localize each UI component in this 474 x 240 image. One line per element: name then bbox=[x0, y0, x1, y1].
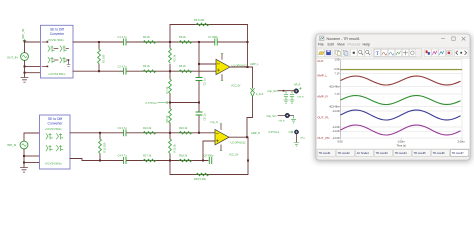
window drop shadow bbox=[315, 34, 472, 162]
wire VG1 bottom bbox=[24, 60, 26, 77]
wire feedback R9 path bbox=[170, 25, 248, 68]
svg-text:0.97Vrms: 0.97Vrms bbox=[269, 131, 280, 134]
x axis labels bbox=[338, 139, 465, 147]
tab bar bbox=[317, 148, 470, 157]
capacitor C1 4.7u bbox=[118, 35, 128, 45]
wire node to box SE2 in2 bbox=[24, 155, 39, 157]
svg-text:R6 2k: R6 2k bbox=[179, 64, 186, 68]
svg-text:VCC_5V: VCC_5V bbox=[231, 85, 241, 88]
svg-text:SE to Diff: SE to Diff bbox=[48, 117, 62, 121]
VCVS E1 inside SE1 bbox=[48, 46, 54, 52]
wire to U2 non-inverting input bbox=[203, 141, 215, 161]
wire cap chain upper bbox=[198, 64, 200, 103]
resistor R9 5.36k feedback bbox=[194, 18, 209, 26]
resistor R7 2k vertical bbox=[165, 71, 171, 102]
svg-text:INP_IN: INP_IN bbox=[21, 29, 25, 39]
toolbar icon save bbox=[325, 49, 332, 57]
axis ticks bbox=[339, 60, 462, 140]
capacitor C4 4.7u bbox=[118, 154, 128, 164]
resistor R17 2k bbox=[143, 154, 156, 162]
voltage source VG2 (INP_R) bbox=[7, 141, 28, 149]
wire rail2 bbox=[73, 70, 216, 72]
svg-text:Help: Help bbox=[363, 43, 370, 47]
toolbar icon pointer bbox=[351, 49, 358, 57]
voltage source VG1 (INP_L) bbox=[7, 29, 28, 61]
junction dots channel 2 bbox=[99, 132, 249, 162]
VCVS E7 inside SE2 bbox=[46, 145, 52, 151]
ground below VM_L bbox=[294, 143, 299, 147]
svg-text:VM_L: VM_L bbox=[300, 137, 306, 139]
svg-text:R1 180: R1 180 bbox=[102, 54, 106, 63]
trace AMP_L sine bbox=[341, 76, 461, 85]
svg-text:0.00: 0.00 bbox=[338, 139, 344, 143]
resistor R4 2k bbox=[143, 64, 156, 73]
macro block SE to Diff Converter 2 bbox=[40, 115, 71, 169]
svg-text:+VCVS4 500m: +VCVS4 500m bbox=[45, 162, 62, 166]
title bar icon bbox=[320, 36, 325, 41]
resistor R13 180 vertical bbox=[99, 133, 107, 161]
svg-text:Z_AuX: Z_AuX bbox=[256, 93, 264, 96]
resistor R3 2k bbox=[143, 35, 156, 43]
wire VG1 top to box SE1 bbox=[25, 42, 41, 53]
wire node to box SE1 in2 bbox=[25, 65, 41, 67]
capacitor C8 390p feedback bbox=[204, 154, 214, 164]
svg-text:C2 4.7u: C2 4.7u bbox=[118, 64, 128, 68]
svg-text:TR result1: TR result1 bbox=[319, 151, 332, 155]
svg-text:-14.00: -14.00 bbox=[332, 110, 340, 113]
voltmeter VM_L bbox=[294, 130, 306, 139]
svg-text:OUT_IN: OUT_IN bbox=[7, 55, 18, 59]
wire rail4 bbox=[70, 159, 208, 161]
svg-text:0.00: 0.00 bbox=[334, 68, 339, 71]
op-amp U1 OPA1612 bbox=[216, 54, 247, 88]
wire to U1 inverting input bbox=[199, 42, 216, 64]
svg-text:VCC_5V: VCC_5V bbox=[229, 154, 239, 157]
svg-text:-823.48m: -823.48m bbox=[329, 85, 340, 88]
svg-text:7.17: 7.17 bbox=[334, 73, 339, 76]
resistor R2 2k vertical between rails bbox=[169, 42, 177, 71]
trace OUT_PR sine bbox=[341, 125, 461, 135]
svg-text:R14 2k: R14 2k bbox=[143, 126, 152, 130]
capacitor C7 390p feedback bbox=[208, 35, 218, 45]
svg-text:Converter: Converter bbox=[48, 122, 64, 126]
svg-text:1.00m: 1.00m bbox=[398, 139, 405, 143]
svg-text:INP_R: INP_R bbox=[7, 143, 17, 147]
wire feedback R19 path bbox=[170, 137, 248, 174]
capacitor C2 4.7u bbox=[118, 64, 128, 74]
wire rail3 bbox=[70, 132, 215, 134]
voltmeter VM_B bbox=[279, 113, 290, 122]
svg-text:0.77Vrms: 0.77Vrms bbox=[145, 101, 157, 105]
wire VM_L to ground bbox=[296, 134, 298, 142]
svg-text:Cap_Sim: Cap_Sim bbox=[267, 115, 277, 118]
svg-text:R19 5.36k: R19 5.36k bbox=[194, 177, 207, 181]
svg-text:R5 2k: R5 2k bbox=[179, 35, 186, 39]
toolbar icon copy2 bbox=[342, 49, 349, 57]
VCVS E4 inside SE1 bbox=[60, 57, 66, 63]
svg-text:R2 2k: R2 2k bbox=[173, 54, 177, 61]
svg-text:-14.00: -14.00 bbox=[332, 130, 340, 133]
window frame bbox=[316, 34, 470, 160]
svg-text:R18 2k: R18 2k bbox=[179, 154, 188, 158]
resistor R8 2k vertical bbox=[165, 103, 171, 133]
node dots VG2 bbox=[23, 155, 25, 164]
toolbar icon open bbox=[318, 49, 325, 57]
resistor R6 2k bbox=[179, 64, 192, 73]
internal wires SE1 bbox=[42, 42, 69, 66]
svg-text:AMP_R: AMP_R bbox=[251, 131, 260, 135]
svg-text:TR result6: TR result6 bbox=[433, 151, 446, 155]
svg-text:Process: Process bbox=[348, 43, 361, 47]
svg-text:TR result5: TR result5 bbox=[414, 151, 427, 155]
toolbar group trace tools bbox=[374, 49, 422, 57]
node dots VG1 bbox=[24, 40, 26, 73]
wire VG2 bottom bbox=[23, 149, 25, 167]
resistor R14 2k bbox=[143, 126, 156, 134]
svg-text:1.00: 1.00 bbox=[334, 59, 339, 62]
svg-text:C7 390p: C7 390p bbox=[208, 35, 218, 39]
svg-text:-823.48m: -823.48m bbox=[329, 106, 340, 109]
svg-text:AMP_L: AMP_L bbox=[250, 62, 259, 66]
svg-text:R4 2k: R4 2k bbox=[143, 64, 150, 68]
menu bar bbox=[318, 43, 370, 47]
svg-text:Time (s): Time (s) bbox=[397, 143, 407, 147]
wire meter cluster mid bbox=[278, 115, 294, 117]
svg-text:Imp_In: Imp_In bbox=[211, 121, 219, 124]
ground below VG2 bbox=[21, 168, 28, 173]
annotation 0.97Vrms bbox=[269, 131, 294, 134]
toolbar bbox=[317, 47, 470, 58]
VCVS E6 inside SE2 bbox=[57, 134, 63, 140]
plot panel bbox=[317, 59, 470, 149]
svg-text:TR result4: TR result4 bbox=[395, 151, 408, 155]
svg-text:C8 390p: C8 390p bbox=[204, 154, 214, 158]
svg-text:AC Scale1: AC Scale1 bbox=[357, 151, 370, 155]
svg-text:T: T bbox=[376, 52, 379, 57]
resistor R19 5.36k feedback bbox=[194, 173, 209, 181]
resistor R1 180 vertical bbox=[98, 42, 106, 71]
svg-text:VM_B: VM_B bbox=[279, 121, 285, 123]
wire node to box SE2 in3 bbox=[24, 162, 39, 164]
signal name labels bbox=[317, 59, 330, 140]
grid frame lines bbox=[340, 60, 462, 138]
wire VG2 top to box SE2 bbox=[24, 133, 39, 141]
svg-text:Noname - TR result1: Noname - TR result1 bbox=[327, 37, 360, 41]
svg-text:R3 2k: R3 2k bbox=[143, 35, 150, 39]
VCVS E5 inside SE2 bbox=[46, 134, 52, 140]
junction dots channel 1 bbox=[98, 41, 249, 104]
VCVS E8 inside SE2 bbox=[57, 145, 63, 151]
svg-text:Edit: Edit bbox=[328, 43, 334, 47]
junction dots upper cluster bbox=[283, 90, 296, 92]
svg-text:Cap_Sim: Cap_Sim bbox=[268, 90, 278, 93]
trace AMP_R sine bbox=[341, 96, 461, 105]
VCVS E2 inside SE1 bbox=[60, 46, 66, 52]
svg-text:HP_R: HP_R bbox=[294, 84, 301, 87]
wire node to box SE1 in3 bbox=[25, 72, 41, 74]
svg-text:File: File bbox=[318, 43, 324, 47]
svg-text:OUT_PL: OUT_PL bbox=[317, 116, 329, 120]
toolbar icon copy1 bbox=[335, 49, 342, 57]
wire mid node bbox=[170, 102, 199, 104]
caption buttons bbox=[441, 37, 465, 41]
capacitor C6 100n bbox=[196, 112, 206, 121]
svg-text:AMP_R: AMP_R bbox=[317, 95, 328, 99]
resistor R5 2k bbox=[179, 35, 192, 43]
op-amp U2 OPA1612 bbox=[215, 124, 246, 157]
svg-text:R15 2k: R15 2k bbox=[173, 144, 177, 153]
toolbar icon zoom-in bbox=[358, 49, 365, 57]
svg-text:C5 1u: C5 1u bbox=[202, 78, 206, 85]
resistor R16 2k bbox=[179, 126, 192, 134]
annotation 0.77Vrms bbox=[145, 101, 168, 105]
svg-text:C4 4.7u: C4 4.7u bbox=[118, 154, 128, 158]
svg-text:+VCVS2 500m: +VCVS2 500m bbox=[48, 72, 65, 76]
toolbar group nav arrows bbox=[455, 49, 469, 57]
svg-text:OUT_PR: OUT_PR bbox=[317, 136, 330, 140]
svg-text:R16 2k: R16 2k bbox=[179, 126, 188, 130]
voltmeter VM_R bbox=[294, 87, 304, 98]
wire U2 output bbox=[229, 136, 248, 138]
wire rail1 bbox=[73, 41, 248, 43]
svg-text:R13 180: R13 180 bbox=[103, 142, 107, 152]
svg-text:SE to Diff: SE to Diff bbox=[50, 27, 64, 31]
svg-text:View: View bbox=[337, 43, 345, 47]
macro block SE to Diff Converter 1 bbox=[41, 25, 74, 78]
svg-text:R7 2k: R7 2k bbox=[165, 86, 169, 93]
svg-text:VM_R: VM_R bbox=[298, 97, 304, 99]
svg-text:AMP_L: AMP_L bbox=[317, 74, 327, 78]
y axis bbox=[339, 60, 341, 138]
axis value labels bbox=[329, 59, 340, 141]
trace AUX flat bbox=[341, 69, 463, 71]
VCVS E3 inside SE1 bbox=[48, 57, 54, 63]
svg-text:AUX: AUX bbox=[317, 59, 323, 63]
capacitor C11 to ground bbox=[290, 91, 294, 104]
svg-text:R8 2k: R8 2k bbox=[165, 115, 169, 122]
capacitor C3 4.7u bbox=[118, 126, 128, 136]
capacitor C5 100n bbox=[196, 78, 206, 86]
svg-text:C3 4.7u: C3 4.7u bbox=[118, 126, 128, 130]
resistor R15 2k vertical between rails bbox=[169, 133, 177, 161]
svg-text:C6 1u: C6 1u bbox=[202, 113, 206, 120]
capacitor C10 to ground bbox=[284, 91, 288, 104]
resistor R18 2k bbox=[179, 154, 192, 162]
wire U1 output bbox=[230, 66, 253, 68]
svg-text:7.17: 7.17 bbox=[334, 93, 339, 96]
svg-text:U2 OPA1612: U2 OPA1612 bbox=[231, 141, 247, 145]
svg-text:R9 5.36k: R9 5.36k bbox=[194, 18, 205, 22]
trace OUT_PL sine bbox=[341, 110, 461, 120]
ground below VG1 bbox=[21, 78, 28, 83]
svg-text:TR result3: TR result3 bbox=[376, 151, 389, 155]
wire meter cluster upper bbox=[278, 90, 298, 92]
svg-text:2.00m: 2.00m bbox=[458, 139, 465, 143]
wire cap chain lower bbox=[198, 103, 200, 133]
svg-text:C1 4.7u: C1 4.7u bbox=[118, 35, 128, 39]
svg-text:+VCVS3 500m: +VCVS3 500m bbox=[45, 127, 62, 131]
ground mid cluster bbox=[291, 116, 295, 123]
svg-text:-14.00: -14.00 bbox=[332, 126, 340, 129]
load Z_AuX vertical bbox=[247, 67, 264, 137]
toolbar icon zoom-out bbox=[365, 49, 372, 57]
svg-text:+VCVS1 500m: +VCVS1 500m bbox=[47, 38, 64, 42]
svg-text:TR result7: TR result7 bbox=[452, 151, 465, 155]
toolbar group colored tools bbox=[425, 49, 453, 57]
svg-text:Converter: Converter bbox=[50, 32, 65, 36]
svg-text:R17 2k: R17 2k bbox=[143, 154, 152, 158]
svg-text:TR result2: TR result2 bbox=[338, 151, 351, 155]
